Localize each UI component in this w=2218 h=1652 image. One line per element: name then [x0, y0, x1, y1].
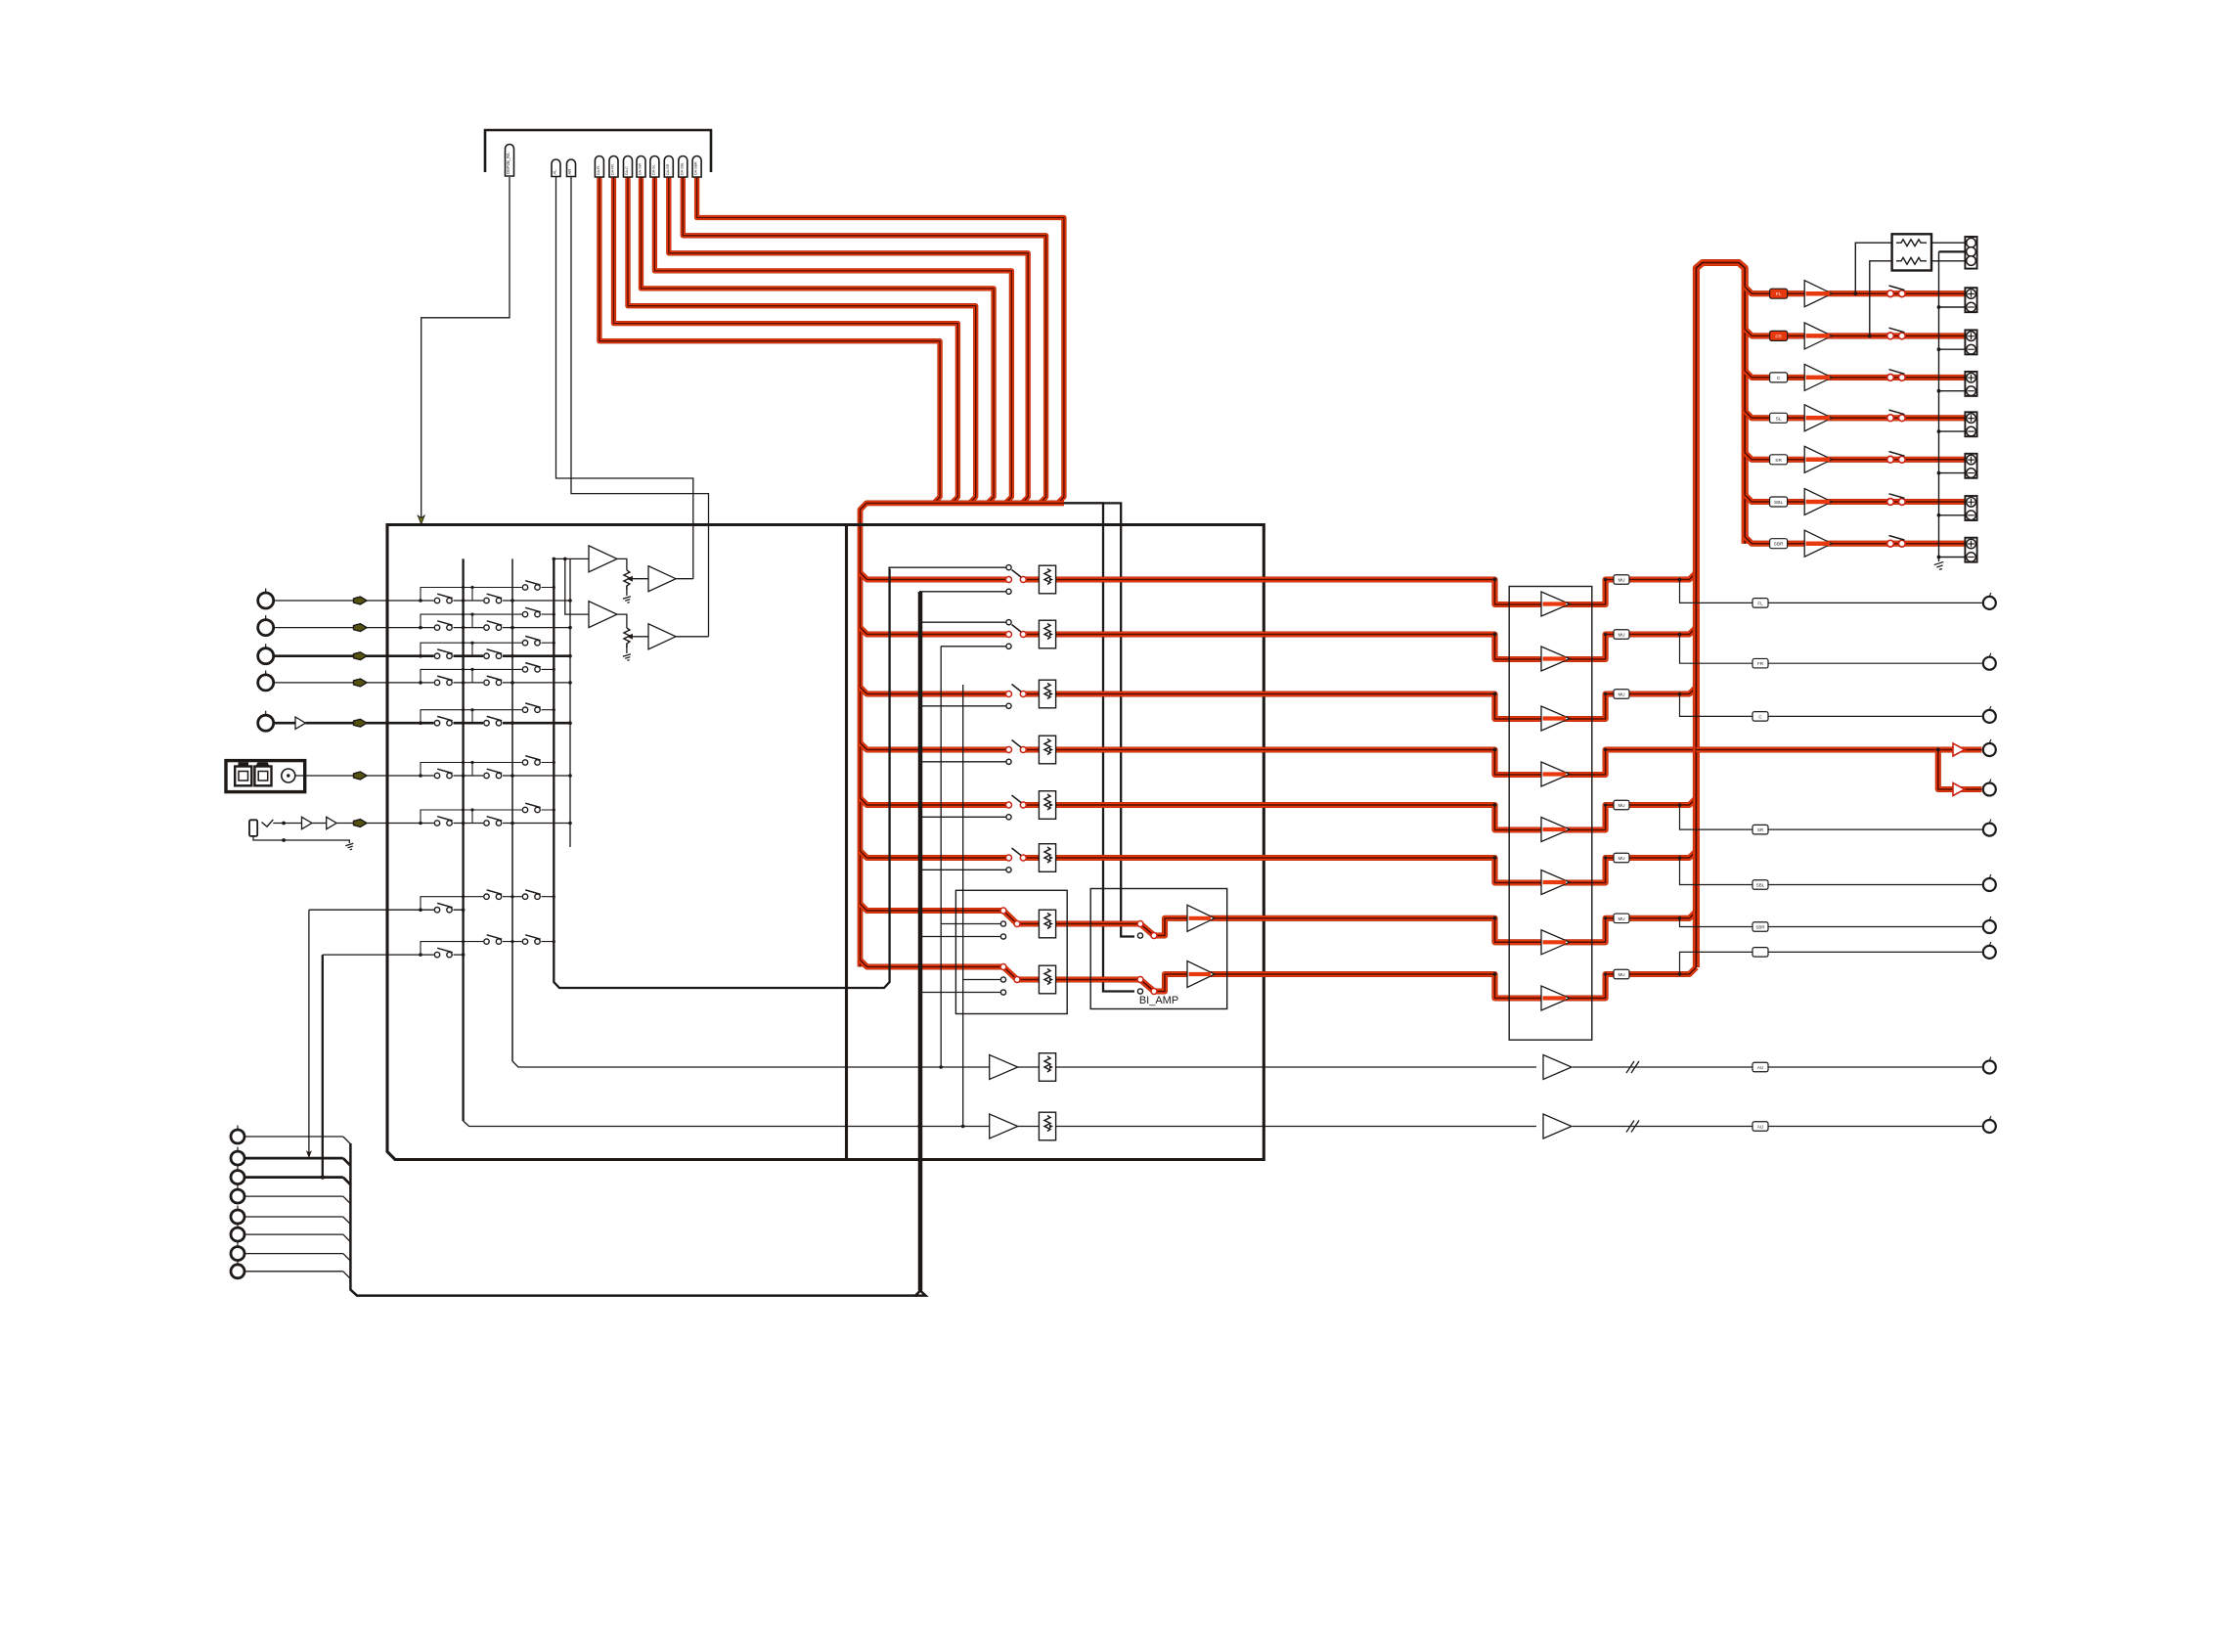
- bus 473.6: [462, 558, 464, 1121]
- mute label row 2: [1614, 630, 1629, 640]
- red speaker branches: [1745, 287, 1965, 293]
- BI_AMP box: [1090, 889, 1227, 1009]
- svg-text:FR: FR: [1775, 334, 1782, 339]
- amp row 7: [1541, 930, 1570, 955]
- red wire DA-FR: [614, 177, 958, 503]
- svg-text:DA-SBL: DA-SBL: [680, 162, 684, 175]
- matrix row 4: [387, 682, 570, 684]
- svg-text:DA-SW: DA-SW: [639, 162, 643, 175]
- speaker channel C: [1770, 373, 1788, 382]
- amp row 2: [1541, 647, 1570, 671]
- zobel network box: [1892, 234, 1931, 270]
- matrix row 6: [387, 775, 570, 777]
- speaker channel FL: [1770, 289, 1788, 298]
- matrix stub row 5: [421, 710, 554, 724]
- svg-text:MU: MU: [1619, 633, 1625, 638]
- red subwoofer line: [1696, 746, 1981, 752]
- tape row A: [512, 1061, 1536, 1067]
- svg-text:FR: FR: [1757, 661, 1764, 666]
- svg-text:SBL: SBL: [1774, 500, 1783, 506]
- BI_AMP amps: [1187, 905, 1215, 931]
- bottom connector 4: [231, 1189, 244, 1203]
- loop wire to matrix row9: [322, 955, 324, 1178]
- main block outline: [387, 525, 1264, 1160]
- matrix stub row 1: [421, 588, 554, 602]
- loop wire to matrix row8: [308, 910, 310, 1158]
- svg-text:FL: FL: [1757, 601, 1763, 605]
- preout branch row 7: [1680, 918, 1753, 927]
- matrix stub row 4: [421, 669, 554, 683]
- svg-text:SL: SL: [1776, 416, 1782, 422]
- tape row B: [464, 1121, 1536, 1127]
- svg-text:SBL: SBL: [1756, 883, 1765, 888]
- amp row 1: [1541, 592, 1570, 616]
- svg-text:MU: MU: [1619, 578, 1625, 583]
- red wire DA-SBR: [697, 177, 1064, 503]
- amp row 3: [1541, 706, 1570, 731]
- speaker channel SBL: [1770, 497, 1788, 507]
- svg-text:SBR: SBR: [1774, 542, 1784, 548]
- svg-text:BI_AMP: BI_AMP: [1139, 995, 1178, 1006]
- buffer cluster wires: [554, 558, 589, 559]
- amp row 8: [1541, 986, 1570, 1010]
- mute label row 1: [1614, 575, 1629, 585]
- matrix stub row 8: [421, 897, 554, 911]
- bottom connector 1: [231, 1130, 244, 1143]
- amp row 6: [1541, 871, 1570, 895]
- input connector 3: [258, 648, 274, 664]
- top bracket: [485, 130, 711, 172]
- matrix row 9: [323, 954, 464, 956]
- matrix row 2: [387, 627, 570, 629]
- bottom merge trunk: [350, 592, 921, 1296]
- digital input panel: [226, 761, 305, 792]
- internal divider: [845, 525, 848, 1160]
- matrix row 1: [387, 600, 570, 602]
- pot 2: [624, 628, 630, 647]
- svg-text:DA-C: DA-C: [625, 166, 629, 175]
- red DAC merge bus: [861, 503, 1065, 966]
- net tag AUDIO_R: [567, 159, 576, 177]
- svg-text:DSP2B_R/L: DSP2B_R/L: [506, 152, 510, 174]
- record loop bus (pi): [554, 558, 889, 988]
- headphone buffers: [302, 817, 312, 828]
- wire AUDIO_R to buffer output: [571, 177, 709, 637]
- svg-text:MU: MU: [1619, 916, 1625, 921]
- preout branch row 8: [1680, 952, 1753, 974]
- svg-text:AL: AL: [553, 169, 557, 175]
- pot 1: [624, 570, 630, 590]
- svg-text:DA-SR: DA-SR: [666, 163, 670, 175]
- input connector 2: [258, 620, 274, 636]
- preout branch row 1: [1680, 580, 1753, 603]
- bottom connector 5: [231, 1210, 244, 1224]
- preout branch row 6: [1680, 858, 1753, 885]
- bus 985: [962, 685, 964, 1127]
- speaker channel SL: [1770, 413, 1788, 423]
- bottom connector 2: [231, 1151, 244, 1165]
- optical row wire: [295, 775, 387, 777]
- red row branches from left trunk: [861, 573, 1009, 580]
- zobel wires: [1855, 243, 1891, 293]
- matrix stub row 6: [421, 763, 554, 777]
- bottom connector 8: [231, 1265, 244, 1278]
- wire to BI_AMP row7 alt contact: [1022, 503, 1134, 936]
- input connector 1: [258, 593, 274, 608]
- preout branch row 3: [1680, 694, 1753, 717]
- svg-text:SR: SR: [1775, 458, 1782, 464]
- mute label row 5: [1614, 800, 1629, 810]
- svg-text:MU: MU: [1619, 803, 1625, 808]
- red wire DA-FL: [599, 177, 940, 503]
- matrix stub row 2: [421, 614, 554, 628]
- net tag DSP2B_R/L: [506, 145, 514, 177]
- mute label row 7: [1614, 914, 1629, 923]
- matrix stub row 3: [421, 643, 554, 656]
- bus908 elbow to row1: [889, 567, 890, 568]
- power amp column box: [1509, 587, 1592, 1041]
- mute label row 6: [1614, 853, 1629, 863]
- matrix row 8: [309, 909, 464, 911]
- wire to BI_AMP row8 alt contact: [1007, 503, 1134, 991]
- bus 962: [940, 647, 942, 1067]
- speaker minus bus: [1938, 251, 1940, 561]
- buffer B3: [589, 602, 617, 628]
- buffer B4: [648, 624, 676, 649]
- preout branch row 2: [1680, 635, 1753, 664]
- SW buffer triangles: [1953, 743, 1965, 756]
- buffer B1: [589, 546, 617, 572]
- input connector 4: [258, 675, 274, 691]
- matrix row 5: [387, 722, 570, 725]
- red wire DA-SW: [642, 177, 995, 503]
- red wire DA-SL: [654, 177, 1011, 503]
- bottom connector 6: [231, 1228, 244, 1241]
- svg-text:MU: MU: [1619, 972, 1625, 977]
- bus 524: [511, 558, 513, 1061]
- red row 7 path: [1003, 911, 1696, 942]
- speaker A/B terminal: [1965, 237, 1976, 269]
- speaker channel SR: [1770, 455, 1788, 465]
- headphone jack: [249, 820, 257, 836]
- svg-text:DA-FL: DA-FL: [597, 165, 600, 175]
- selector sub box: [955, 890, 1067, 1013]
- red output trunk tower: [1696, 263, 1745, 968]
- svg-text:DA-SBR: DA-SBR: [694, 161, 698, 175]
- svg-text:AR: AR: [567, 169, 572, 175]
- svg-text:MU: MU: [1619, 856, 1625, 861]
- svg-text:SR: SR: [1757, 827, 1764, 832]
- mute label row 8: [1614, 969, 1629, 979]
- SW preout jacks: [1983, 743, 1996, 756]
- preout branch row 5: [1680, 805, 1753, 829]
- bus 940: [915, 592, 926, 1296]
- matrix stub row 7: [421, 810, 554, 824]
- red wire DA-C: [628, 177, 976, 503]
- svg-text:SBR: SBR: [1755, 925, 1765, 930]
- matrix stub row 9: [421, 942, 554, 956]
- headphone ground wire: [253, 836, 349, 843]
- svg-text:DA-SL: DA-SL: [651, 164, 655, 175]
- bottom connector 7: [231, 1247, 244, 1261]
- net tag AUDIO_L: [552, 159, 560, 177]
- svg-text:AU: AU: [1757, 1065, 1763, 1070]
- red row 8 path: [1003, 967, 1696, 999]
- matrix row 7: [387, 823, 570, 825]
- amp row 4: [1541, 762, 1570, 786]
- svg-text:MU: MU: [1619, 692, 1625, 697]
- input connector 5: [258, 715, 274, 731]
- wire AUDIO_L to buffer output: [556, 177, 693, 579]
- amp row 5: [1541, 818, 1570, 842]
- mute label row 3: [1614, 690, 1629, 699]
- red wire DA-SBL: [683, 177, 1045, 503]
- buffer B2: [648, 566, 676, 592]
- svg-text:FL: FL: [1776, 291, 1782, 297]
- bus 583: [569, 558, 571, 847]
- row selector switches: [889, 566, 1009, 568]
- matrix row 3: [387, 654, 570, 657]
- svg-text:C: C: [1777, 376, 1781, 381]
- speaker channel FR: [1770, 331, 1788, 340]
- svg-text:DA-FR: DA-FR: [611, 164, 615, 175]
- bottom connector 3: [231, 1171, 244, 1184]
- speaker channel SBR: [1770, 539, 1788, 549]
- svg-text:AU: AU: [1757, 1125, 1763, 1130]
- wire from DSP tag to selector box: [421, 177, 510, 518]
- red wire DA-SR: [669, 177, 1028, 503]
